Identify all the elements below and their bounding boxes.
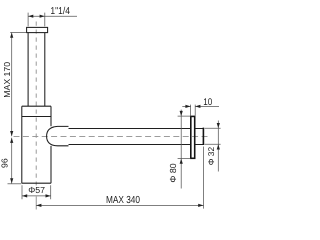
dim 10 left tail and arrow bbox=[182, 105, 190, 107]
dim 10 extension lines bbox=[191, 105, 196, 116]
dim 10 right tail and arrow bbox=[195, 105, 219, 107]
dim MAX340 left arrow bbox=[36, 204, 41, 207]
dim 1"1/4 line bbox=[28, 15, 77, 17]
dim phi57 right arrow bbox=[46, 194, 51, 197]
dim MAX340 right arrow bbox=[198, 204, 203, 207]
inlet tailpipe body bbox=[28, 33, 45, 107]
dim phi32 bottom arrow bbox=[217, 144, 220, 149]
dim phi80 top arrow bbox=[180, 111, 183, 116]
dim 1"1/4 left arrow bbox=[28, 15, 33, 18]
dim phi57 line bbox=[22, 195, 51, 197]
svg-text:Φ57: Φ57 bbox=[28, 185, 45, 195]
dim MAX170 top arrow bbox=[10, 33, 13, 38]
horizontal outlet pipe bbox=[69, 129, 191, 145]
dim 96 line bbox=[11, 138, 13, 184]
outlet pipe stub through wall bbox=[195, 129, 203, 145]
svg-text:MAX 170: MAX 170 bbox=[2, 62, 12, 98]
dim phi57 left arrow bbox=[22, 194, 27, 197]
dim MAX170 line bbox=[11, 33, 13, 137]
inlet nut (1"1/4) bbox=[27, 27, 48, 32]
svg-text:10: 10 bbox=[203, 97, 212, 108]
dim phi80 extension lines bbox=[178, 116, 191, 159]
dim 96 bottom extension line bbox=[8, 183, 22, 185]
trap cup nut line bbox=[22, 116, 51, 118]
dim 96 top arrow bbox=[10, 138, 13, 143]
wall flange (rosette) bbox=[191, 116, 195, 158]
dim MAX170 bottom arrow bbox=[10, 131, 13, 136]
dim phi32 top arrow bbox=[217, 123, 220, 128]
node axis: vertical centerline lower extension bbox=[35, 197, 37, 210]
dim phi32 line bbox=[217, 121, 219, 172]
svg-text:96: 96 bbox=[0, 158, 10, 168]
dim 1"1/4 extension lines bbox=[28, 13, 45, 27]
dim phi80 bottom arrow bbox=[180, 159, 183, 164]
dim phi80 line bbox=[180, 110, 182, 189]
dim MAX170 top extension line bbox=[10, 32, 26, 34]
dim MAX340 right extension line bbox=[203, 147, 205, 209]
svg-text:Φ 32: Φ 32 bbox=[206, 147, 216, 166]
dim 96 bottom arrow bbox=[10, 178, 13, 183]
svg-text:MAX 340: MAX 340 bbox=[106, 195, 140, 206]
dim phi57 extension lines bbox=[22, 185, 51, 199]
outlet pipe end edge bbox=[202, 128, 204, 145]
node axis: vertical centerline of trap bbox=[35, 22, 37, 186]
dim MAX340 line bbox=[36, 204, 203, 206]
node axis: horizontal centerline of outlet pipe bbox=[14, 135, 209, 137]
svg-text:1"1/4: 1"1/4 bbox=[50, 6, 70, 17]
svg-text:Φ 80: Φ 80 bbox=[168, 163, 178, 182]
dim 1"1/4 right arrow bbox=[40, 15, 45, 18]
dim phi32 extension lines bbox=[205, 128, 221, 144]
trap cup body bbox=[22, 106, 51, 183]
outlet nut on cup bbox=[47, 126, 69, 145]
